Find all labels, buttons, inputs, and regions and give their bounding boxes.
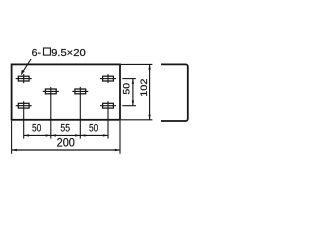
plate outline (front view) bbox=[12, 64, 120, 119]
dimension 200 line bbox=[12, 149, 120, 151]
label 6-square 9.5x20 bbox=[32, 48, 86, 59]
side view channel bbox=[161, 64, 188, 121]
svg-text:200: 200 bbox=[57, 136, 75, 149]
slot 5 (col4 row1) bbox=[100, 74, 116, 83]
svg-text:50: 50 bbox=[121, 83, 131, 95]
dimension chain 50/55/50 line bbox=[24, 134, 108, 136]
dimension 102 vertical line bbox=[148, 64, 150, 119]
extension lines for 200 dim bbox=[12, 121, 120, 154]
svg-text:50: 50 bbox=[32, 123, 41, 135]
slot 2 (col1 row2) bbox=[16, 101, 32, 138]
slot 1 (col1 row1) bbox=[16, 74, 32, 83]
slot 4 (col3 middle) bbox=[72, 87, 88, 139]
svg-text:55: 55 bbox=[60, 123, 70, 135]
extension lines for 102 dim (plate top/bottom extended) bbox=[121, 64, 153, 119]
leader arrow to slot 1 bbox=[21, 59, 31, 75]
extension lines for vertical 50 dim bbox=[122, 79, 136, 106]
slot 6 (col4 row2) bbox=[100, 101, 116, 138]
svg-text:6-: 6- bbox=[32, 48, 41, 59]
svg-text:9.5×20: 9.5×20 bbox=[51, 48, 86, 59]
dimension 50 vertical line bbox=[132, 79, 134, 106]
slot 3 (col2 middle) bbox=[43, 87, 59, 139]
svg-text:102: 102 bbox=[138, 79, 149, 97]
svg-text:50: 50 bbox=[89, 123, 98, 135]
